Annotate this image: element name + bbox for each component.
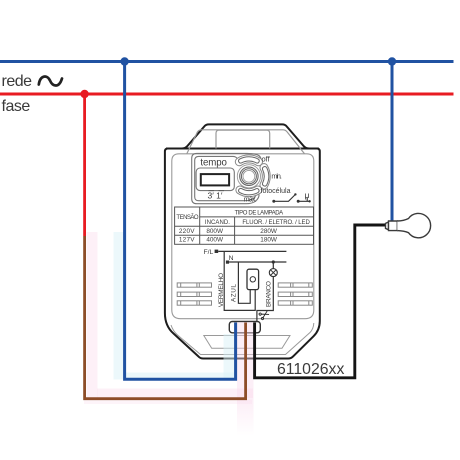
svg-text:TENSÃO: TENSÃO — [176, 214, 199, 221]
display window — [201, 174, 229, 185]
svg-text:máx.: máx. — [244, 194, 257, 203]
switch symbol contact — [272, 200, 275, 203]
svg-text:180W: 180W — [260, 237, 278, 244]
svg-text:tempo: tempo — [200, 158, 226, 169]
wire brown segment — [85, 236, 246, 399]
svg-text:N: N — [229, 255, 234, 262]
svg-text:VERMELHO: VERMELHO — [218, 273, 225, 307]
svg-text:127V: 127V — [179, 237, 195, 244]
arc min — [262, 167, 268, 186]
node on N bus — [272, 260, 275, 263]
halo pink around connector wires — [237, 322, 254, 436]
svg-text:TIPO DE LAMPADA: TIPO DE LAMPADA — [235, 210, 284, 216]
junction dot rede-right — [388, 57, 396, 65]
display bezel — [196, 168, 234, 191]
svg-text:220V: 220V — [179, 228, 195, 235]
svg-text:3′ 1′: 3′ 1′ — [208, 191, 223, 201]
knob outer — [240, 167, 258, 185]
tempo panel outer contour — [192, 153, 261, 203]
svg-text:fase: fase — [2, 98, 31, 115]
inner tray trapezoid — [204, 336, 290, 349]
junction dot rede-left — [120, 57, 128, 65]
svg-text:INCAND.: INCAND. — [205, 220, 230, 226]
wire fase (phase bus, red horizontal) — [0, 93, 454, 96]
connector tab — [229, 322, 260, 333]
wire rede (neutral bus, blue horizontal) — [0, 60, 454, 63]
svg-text:800W: 800W — [206, 228, 224, 235]
table TIPO DE LAMPADA — [175, 207, 314, 244]
halo pink above brown horizontal — [97, 389, 253, 399]
taper inner contour — [171, 323, 314, 355]
device inner shell contour — [172, 154, 314, 319]
halo pink along brown vertical — [87, 232, 98, 398]
wire azul internal — [238, 262, 250, 303]
svg-text:BRANCO: BRANCO — [265, 281, 272, 307]
tempo panel inner contour — [195, 156, 256, 200]
scale ticks 3' 1' — [209, 190, 225, 192]
wrap min — [260, 164, 270, 189]
knob inner — [243, 170, 255, 182]
wrap off — [235, 155, 262, 166]
relay U1 — [247, 269, 259, 289]
arc off — [239, 157, 260, 163]
svg-text:AZUL: AZUL — [231, 284, 238, 302]
svg-text:min.: min. — [271, 171, 282, 180]
lamp symbol internal — [269, 269, 277, 277]
node N — [226, 261, 229, 264]
halo cyan along connector blue wire — [224, 334, 235, 379]
halo cyan above blue horizontal — [125, 373, 234, 380]
scissors symbol — [259, 310, 270, 320]
junction dot fase — [80, 90, 88, 98]
knob mid — [241, 169, 256, 184]
wire blue drop to lamp — [391, 62, 394, 221]
wrap max — [236, 186, 262, 197]
lamp bulb — [386, 213, 431, 237]
knob cutout circle — [237, 165, 260, 188]
wire vermelho internal — [224, 251, 255, 310]
svg-text:400W: 400W — [206, 237, 224, 244]
wire black to lamp — [255, 225, 386, 378]
wire branco internal — [257, 262, 273, 322]
svg-text:fotocélula: fotocélula — [261, 188, 291, 195]
wire red segment from fase — [83, 94, 86, 236]
halo pink below brown horizontal — [84, 400, 252, 405]
svg-text:F/L: F/L — [204, 249, 214, 256]
svg-text:611026xx: 611026xx — [277, 361, 344, 378]
tab window — [216, 130, 270, 148]
vent slots left — [177, 283, 211, 305]
svg-text:off: off — [262, 154, 271, 163]
wire N bus — [229, 261, 286, 263]
node F/L — [215, 250, 219, 253]
svg-text:rede: rede — [2, 73, 33, 90]
wire blue from rede to device — [125, 62, 236, 380]
device inner tab contour — [187, 130, 305, 154]
svg-text:FLUOR. / ELETRO. / LED: FLUOR. / ELETRO. / LED — [242, 220, 310, 226]
halo cyan along blue vertical — [114, 232, 126, 380]
vent slots right — [278, 283, 312, 305]
AC sine symbol — [39, 77, 62, 86]
arc max — [239, 188, 259, 194]
wire F/L bus — [218, 250, 286, 252]
svg-text:280W: 280W — [260, 228, 278, 235]
device body top edge under tab — [166, 148, 319, 150]
device outer case — [165, 124, 320, 358]
svg-text:μ: μ — [305, 190, 310, 200]
